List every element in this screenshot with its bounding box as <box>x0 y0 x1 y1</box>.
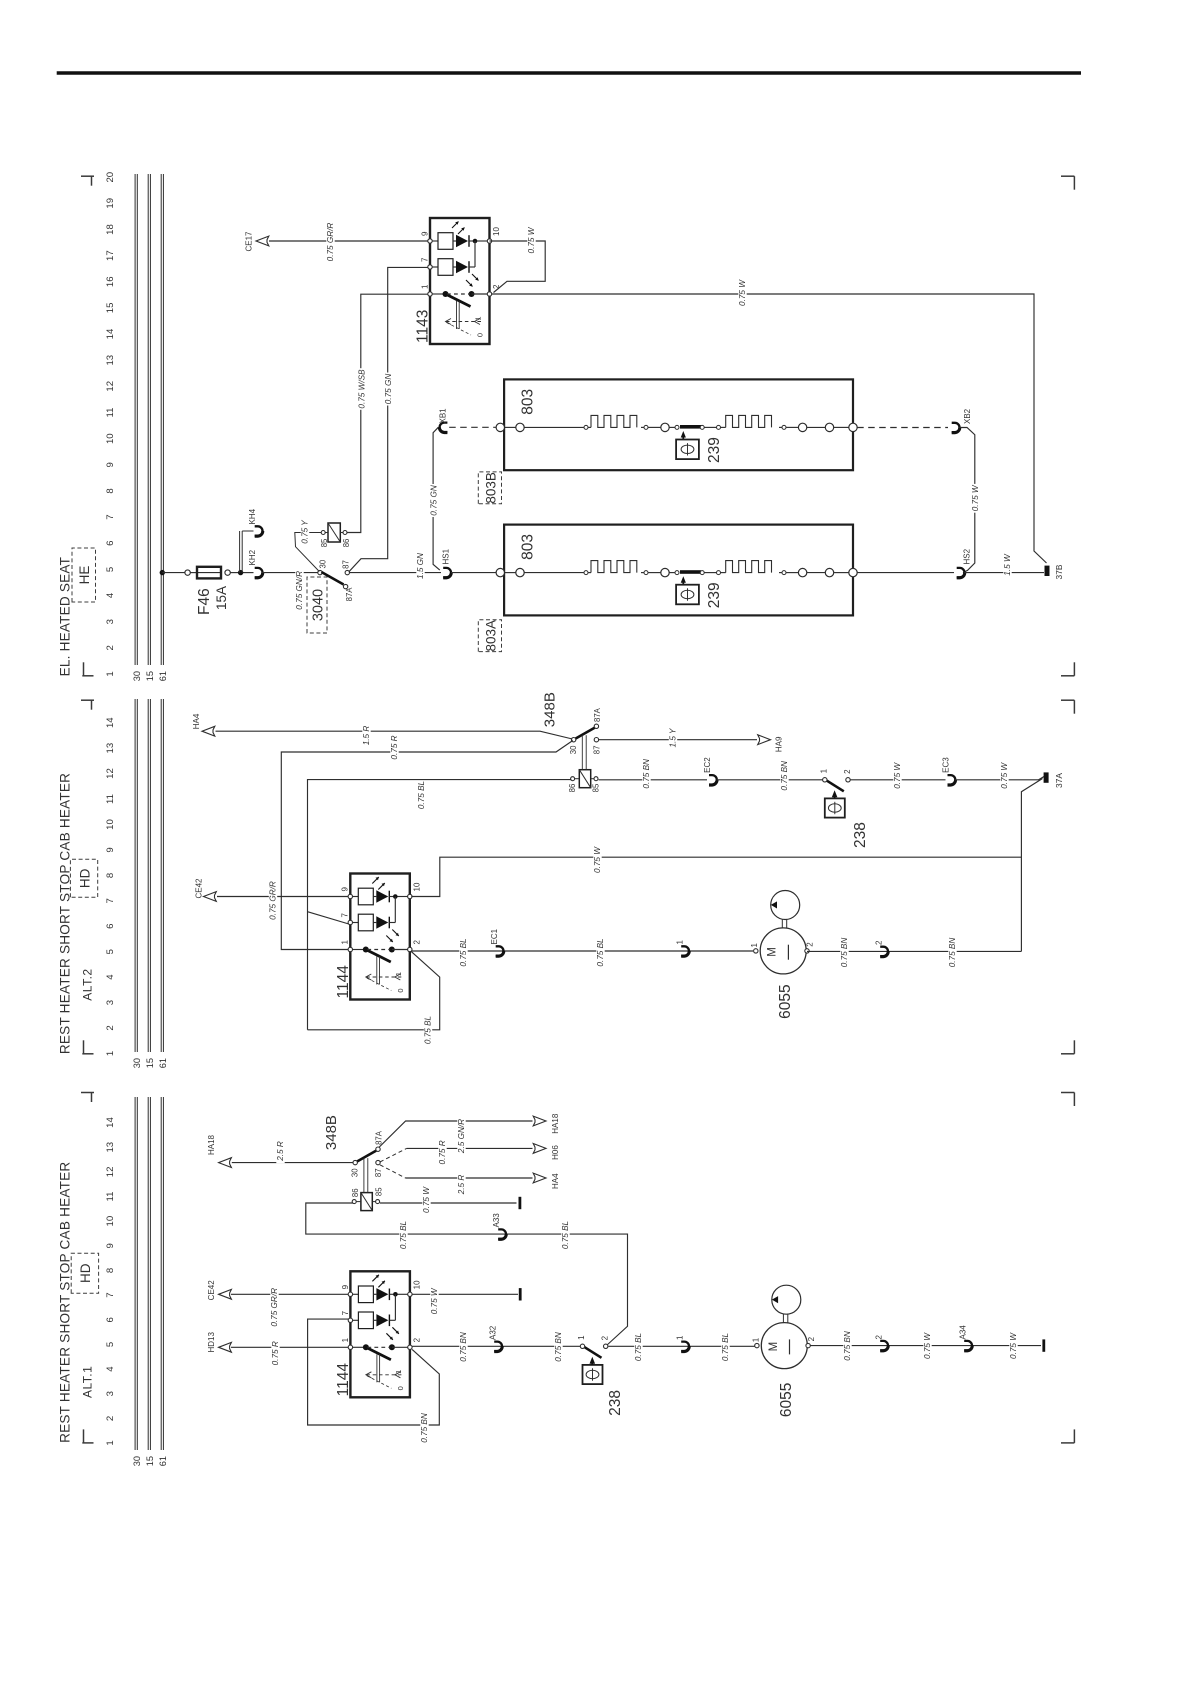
relay 3040 coil <box>320 523 351 547</box>
svg-text:13: 13 <box>105 355 116 366</box>
svg-text:0: 0 <box>396 1386 405 1390</box>
svg-text:1: 1 <box>751 1337 760 1342</box>
thermostat 238 (ALT.1) <box>577 1335 624 1416</box>
ALT.2 corner marks <box>81 700 1074 1054</box>
svg-text:348B: 348B <box>323 1115 340 1150</box>
svg-text:5: 5 <box>105 567 116 572</box>
svg-text:0.75 R: 0.75 R <box>438 1140 447 1164</box>
ALT.2 grid column numbers <box>105 717 116 1056</box>
connector HS1 <box>442 548 452 578</box>
connector arrow HA4 (ALT.2) <box>192 713 215 736</box>
svg-text:4: 4 <box>105 1366 116 1372</box>
svg-text:1: 1 <box>750 943 759 948</box>
svg-text:12: 12 <box>105 768 116 779</box>
HE rail labels <box>132 671 168 681</box>
svg-text:1: 1 <box>105 1440 116 1445</box>
svg-text:HA18: HA18 <box>207 1134 216 1155</box>
svg-text:14: 14 <box>105 328 116 339</box>
svg-text:2: 2 <box>105 1025 116 1030</box>
svg-text:87: 87 <box>342 560 351 569</box>
connector XB1 <box>439 408 448 433</box>
svg-text:1.5 R: 1.5 R <box>362 726 371 746</box>
svg-text:0.75 BN: 0.75 BN <box>948 938 957 968</box>
svg-text:CE42: CE42 <box>207 1280 216 1301</box>
wire 2.5 R 87 to HA4 (ALT.1) <box>380 1165 533 1197</box>
svg-text:KH2: KH2 <box>248 549 257 565</box>
svg-text:30: 30 <box>132 671 142 681</box>
svg-text:2: 2 <box>412 1337 421 1342</box>
wire 0.75 BN EC2 to 238 (ALT.2) <box>717 759 823 792</box>
group box 803B <box>478 472 501 504</box>
svg-text:A32: A32 <box>489 1325 498 1340</box>
svg-text:7: 7 <box>105 898 116 903</box>
svg-text:1: 1 <box>105 1051 116 1056</box>
svg-text:2: 2 <box>601 1335 610 1340</box>
svg-text:0.75 W: 0.75 W <box>422 1186 431 1213</box>
svg-text:9: 9 <box>341 1284 350 1289</box>
svg-text:0: 0 <box>476 333 485 337</box>
group box 3040 <box>307 577 327 633</box>
svg-text:1144: 1144 <box>335 1363 352 1397</box>
svg-text:3: 3 <box>105 619 116 624</box>
svg-text:19: 19 <box>105 198 116 209</box>
connector XB2 <box>952 408 972 432</box>
svg-text:239: 239 <box>706 437 723 463</box>
HE corner marks <box>81 176 1074 676</box>
wire 0.75 W EC3 to ground 37A (ALT.2) <box>955 761 1044 790</box>
wire HS1 to 803A <box>451 572 496 574</box>
svg-text:1: 1 <box>341 1337 350 1342</box>
svg-text:CE42: CE42 <box>195 878 204 899</box>
heater element unit 803B <box>496 379 857 470</box>
svg-text:61: 61 <box>158 1456 168 1466</box>
relay 3040 blade <box>321 572 343 585</box>
svg-text:30: 30 <box>319 559 328 568</box>
svg-text:1143: 1143 <box>415 310 432 343</box>
ALT.1 function group box HD <box>71 1253 98 1293</box>
svg-text:HA9: HA9 <box>775 736 784 752</box>
wire 0.75 GN pin7 to relay 87 <box>349 267 428 572</box>
connector arrow HD13 (ALT.1) <box>207 1332 231 1353</box>
svg-text:0.75 BL: 0.75 BL <box>399 1221 408 1249</box>
svg-text:1.5 GN: 1.5 GN <box>416 553 425 579</box>
svg-text:15: 15 <box>105 303 116 314</box>
svg-text:4: 4 <box>105 974 116 980</box>
ALT.2 function group box HD <box>70 859 97 897</box>
svg-text:61: 61 <box>158 671 168 681</box>
ALT.1 section title <box>58 1162 73 1443</box>
wire 1.5 W HS2 to ground <box>964 553 1044 578</box>
svg-text:2: 2 <box>412 940 421 945</box>
connector arrow H06 (ALT.1) <box>533 1144 560 1160</box>
svg-text:0.75 BL: 0.75 BL <box>459 938 468 966</box>
switch 1143 <box>415 218 502 344</box>
wire 0.75 BN pin2 to A32 (ALT.1) <box>412 1331 580 1364</box>
connector arrow HA18 right (ALT.1) <box>533 1113 560 1134</box>
svg-text:EC1: EC1 <box>490 928 499 944</box>
svg-text:0.75 W: 0.75 W <box>1000 762 1009 789</box>
svg-text:7: 7 <box>420 257 429 262</box>
svg-text:15: 15 <box>145 1058 155 1068</box>
svg-text:10: 10 <box>105 819 116 830</box>
svg-text:1: 1 <box>420 284 429 289</box>
svg-text:7: 7 <box>341 913 350 918</box>
svg-text:0.75 BN: 0.75 BN <box>840 938 849 968</box>
svg-text:0.75 BL: 0.75 BL <box>721 1333 730 1361</box>
svg-text:13: 13 <box>105 743 116 754</box>
svg-text:HD: HD <box>78 1263 93 1283</box>
relay 3040 pin 87A <box>343 584 354 601</box>
connector A34 (ALT.1) <box>959 1325 973 1351</box>
connector pin1 inline (ALT.2) <box>676 940 690 957</box>
svg-text:10: 10 <box>412 1280 421 1289</box>
svg-text:HD13: HD13 <box>207 1332 216 1353</box>
svg-text:5: 5 <box>105 1342 116 1347</box>
svg-text:2: 2 <box>843 769 852 774</box>
svg-text:8: 8 <box>105 1268 116 1273</box>
HE grid column numbers <box>105 172 116 677</box>
wire 0.75 W pin2 to ground 37B <box>492 279 1047 563</box>
wire 803A to HS2 <box>857 572 954 574</box>
wire 0.75 W pin10 to pin2 jumper <box>490 226 546 292</box>
svg-text:1: 1 <box>105 671 116 676</box>
connector KH4 <box>248 508 263 536</box>
svg-text:2: 2 <box>492 284 501 289</box>
svg-text:5: 5 <box>105 949 116 954</box>
switch 1144 (ALT.2) <box>335 874 422 1000</box>
svg-text:7: 7 <box>105 514 116 519</box>
svg-text:0.75 GN/R: 0.75 GN/R <box>295 571 304 610</box>
svg-text:0.75 GR/R: 0.75 GR/R <box>270 1288 279 1327</box>
wire 0.75 GR/R pin9 to CE17 <box>269 221 428 263</box>
svg-text:0.75 R: 0.75 R <box>271 1341 280 1365</box>
svg-text:ALT.2: ALT.2 <box>81 968 95 1000</box>
svg-text:1: 1 <box>394 1370 403 1374</box>
connector arrow HA9 (ALT.2) <box>758 735 784 752</box>
ALT.1 power rails <box>135 1097 163 1450</box>
svg-text:15: 15 <box>145 1456 155 1466</box>
wire 0.75 BN coil85 to EC2 (ALT.2) <box>599 757 707 790</box>
wire 0.75 BL coil86 to A33 line (ALT.1) <box>306 1203 628 1346</box>
svg-text:2: 2 <box>807 1336 816 1341</box>
svg-text:2: 2 <box>875 940 884 945</box>
svg-text:1144: 1144 <box>335 965 352 999</box>
svg-text:86: 86 <box>568 784 577 793</box>
connector arrow HA18 left (ALT.1) <box>207 1134 231 1167</box>
svg-text:A33: A33 <box>492 1213 501 1228</box>
svg-text:0.75 W: 0.75 W <box>893 762 902 789</box>
connector arrow CE17 <box>245 231 269 252</box>
svg-text:HA18: HA18 <box>551 1113 560 1134</box>
svg-text:0.75 R: 0.75 R <box>390 735 399 759</box>
ALT.1 corner marks <box>81 1093 1074 1443</box>
svg-text:9: 9 <box>105 462 116 467</box>
svg-text:6: 6 <box>105 1317 116 1322</box>
svg-text:6: 6 <box>105 541 116 546</box>
svg-text:18: 18 <box>105 224 116 235</box>
svg-text:30: 30 <box>569 745 578 754</box>
ALT.2 subtitle ALT.2 <box>81 968 95 1000</box>
svg-text:4: 4 <box>105 592 116 598</box>
wire 1.5 GN relay to HS1 <box>350 552 442 581</box>
svg-text:2.5 R: 2.5 R <box>276 1141 285 1162</box>
svg-text:30: 30 <box>351 1168 360 1177</box>
svg-text:10: 10 <box>412 882 421 891</box>
svg-text:7: 7 <box>105 1292 116 1297</box>
heater element unit 803A <box>496 525 857 616</box>
svg-text:15: 15 <box>145 671 155 681</box>
ground bar pin10 (ALT.1) <box>519 1288 522 1300</box>
svg-text:0.75 BN: 0.75 BN <box>780 761 789 791</box>
relay 3040 pin 30 <box>318 559 328 575</box>
wire 0.75 W coil85 to ground (ALT.1) <box>380 1186 517 1215</box>
svg-text:8: 8 <box>105 873 116 878</box>
svg-text:239: 239 <box>706 582 723 608</box>
svg-text:0.75 BN: 0.75 BN <box>554 1332 563 1362</box>
svg-text:0.75 GN: 0.75 GN <box>429 485 438 516</box>
wire 0.75 BN pin2 net loop (ALT.1) <box>308 1319 440 1444</box>
svg-text:85: 85 <box>375 1187 384 1196</box>
svg-text:0.75 Y: 0.75 Y <box>301 520 310 544</box>
svg-text:8: 8 <box>105 488 116 493</box>
wire motor pin2 to ground (ALT.1) <box>810 1330 1041 1363</box>
svg-text:0.75 BN: 0.75 BN <box>642 759 651 789</box>
svg-text:10: 10 <box>105 433 116 444</box>
svg-text:1: 1 <box>676 1335 685 1340</box>
svg-text:2: 2 <box>105 645 116 650</box>
svg-text:30: 30 <box>132 1456 142 1466</box>
wire motor return to ground 37A (ALT.2) <box>1021 779 1042 952</box>
HE fuse F46 terminals <box>185 570 230 575</box>
ALT.2 section title <box>58 773 73 1054</box>
ALT.1 grid column numbers <box>105 1117 116 1446</box>
svg-text:HA4: HA4 <box>551 1173 560 1189</box>
svg-text:XB1: XB1 <box>439 408 448 424</box>
svg-text:86: 86 <box>342 539 351 548</box>
connector 1 inline (ALT.1) <box>676 1335 690 1352</box>
svg-text:6055: 6055 <box>778 1383 795 1417</box>
ground 37A (ALT.2) <box>1044 772 1064 788</box>
ALT.1 subtitle ALT.1 <box>81 1366 95 1398</box>
svg-text:12: 12 <box>105 1167 116 1178</box>
svg-text:EC2: EC2 <box>703 757 712 773</box>
HE wire fuse to KH2 <box>230 572 253 574</box>
svg-text:HA4: HA4 <box>192 713 201 729</box>
svg-text:803: 803 <box>520 389 537 415</box>
svg-text:HD: HD <box>77 868 92 888</box>
svg-text:M: M <box>768 1342 780 1352</box>
svg-text:30: 30 <box>132 1058 142 1068</box>
connector 2 inline (ALT.1) <box>875 1335 889 1351</box>
wire 0.75 R 87 to H06 (ALT.1) <box>380 1138 533 1167</box>
wire 0.75 GN/R to relay 3040 <box>262 569 318 611</box>
svg-text:14: 14 <box>105 1117 116 1128</box>
svg-text:803A: 803A <box>484 620 499 652</box>
wire branch to KH4 (double) <box>240 531 254 573</box>
svg-text:0.75 W: 0.75 W <box>923 1332 932 1359</box>
connector 2 inline (ALT.2) <box>875 940 889 957</box>
svg-text:87A: 87A <box>345 587 354 602</box>
svg-text:1: 1 <box>474 316 483 320</box>
wire 0.75 Y coil85 to pin30 <box>295 518 321 572</box>
HE wire rail61 to fuse <box>162 572 197 574</box>
wire 0.75 BL 238 to motor (ALT.1) <box>608 1331 755 1364</box>
wire 0.75 GR/R pin9 to CE42 (ALT.2) <box>217 880 348 922</box>
svg-text:87: 87 <box>593 746 602 755</box>
dashed wire 803B to XB2 <box>857 427 948 429</box>
svg-text:1: 1 <box>819 768 828 773</box>
svg-text:9: 9 <box>420 231 429 236</box>
wire 0.75 W XB2 to HS2 <box>959 428 980 573</box>
svg-text:1.5 Y: 1.5 Y <box>669 728 678 748</box>
svg-text:86: 86 <box>351 1188 360 1197</box>
HE branch dot <box>238 570 243 575</box>
group box 803A <box>478 620 501 652</box>
svg-text:6: 6 <box>105 924 116 929</box>
svg-text:HS2: HS2 <box>963 548 972 564</box>
svg-text:15A: 15A <box>214 586 229 610</box>
wire 2.5 R HA18 to relay 30 (ALT.1) <box>232 1139 353 1164</box>
svg-text:6055: 6055 <box>777 984 794 1018</box>
svg-text:0.75 W: 0.75 W <box>527 226 536 253</box>
svg-text:0.75 BL: 0.75 BL <box>424 1016 433 1044</box>
svg-text:37B: 37B <box>1054 564 1064 579</box>
wire 0.75 GR/R pin9 to CE42 (ALT.1) <box>231 1287 348 1329</box>
svg-text:2.5 R: 2.5 R <box>457 1175 466 1196</box>
svg-text:0.75 BN: 0.75 BN <box>420 1413 429 1443</box>
svg-text:2: 2 <box>806 942 815 947</box>
svg-text:2.5 GN/R: 2.5 GN/R <box>457 1119 466 1154</box>
svg-text:3040: 3040 <box>311 589 327 621</box>
svg-text:16: 16 <box>105 276 116 287</box>
svg-text:9: 9 <box>105 1243 116 1248</box>
svg-text:85: 85 <box>320 538 329 547</box>
svg-text:87A: 87A <box>374 1130 383 1145</box>
connector EC3 (ALT.2) <box>942 757 956 785</box>
svg-text:0.75 BL: 0.75 BL <box>596 938 605 966</box>
connector EC1 (ALT.2) <box>490 928 504 956</box>
svg-text:0.75 GR/R: 0.75 GR/R <box>269 881 278 920</box>
wire 0.75 W pin10 to ground line (ALT.2) <box>411 846 1021 897</box>
svg-text:20: 20 <box>105 172 116 183</box>
svg-text:10: 10 <box>492 227 501 236</box>
svg-text:87A: 87A <box>593 707 602 722</box>
svg-text:REST HEATER SHORT STOP CAB HEA: REST HEATER SHORT STOP CAB HEATER <box>58 1162 73 1443</box>
svg-text:348B: 348B <box>542 692 559 727</box>
svg-text:0.75 W: 0.75 W <box>593 846 602 873</box>
svg-text:M: M <box>767 947 779 957</box>
svg-text:14: 14 <box>105 717 116 728</box>
svg-text:0.75 BL: 0.75 BL <box>634 1333 643 1361</box>
svg-text:0.75 W: 0.75 W <box>1009 1332 1018 1359</box>
fuse F46 <box>196 567 229 615</box>
svg-text:37A: 37A <box>1054 773 1064 788</box>
connector A32 (ALT.1) <box>489 1325 503 1351</box>
connector arrow CE42 (ALT.1) <box>207 1280 231 1301</box>
page top rule (thick border line) <box>57 71 1081 75</box>
svg-text:238: 238 <box>852 822 869 848</box>
wire 0.75 R pin1 to relay 30 (ALT.2) <box>281 733 573 949</box>
svg-text:EC3: EC3 <box>942 757 951 773</box>
svg-text:3: 3 <box>105 1000 116 1005</box>
HE section title <box>58 557 73 677</box>
ALT.2 power rails <box>135 699 163 1052</box>
svg-text:CE17: CE17 <box>245 231 254 252</box>
connector arrow HA4 (ALT.1) <box>533 1173 560 1189</box>
wire 0.75 W/SB pin1 to coil 86 <box>347 294 428 532</box>
svg-text:HE: HE <box>77 566 92 585</box>
relay 348B (ALT.2) <box>542 692 602 792</box>
svg-text:17: 17 <box>105 250 116 261</box>
ALT.2 rail labels <box>132 1058 168 1068</box>
svg-text:HS1: HS1 <box>442 548 451 564</box>
wire 0.75 BL pin2 to motor (ALT.2) <box>411 936 753 969</box>
svg-text:2: 2 <box>875 1335 884 1340</box>
svg-text:13: 13 <box>105 1142 116 1153</box>
svg-text:XB2: XB2 <box>963 408 972 424</box>
wire 0.75 W pin10 to ground (ALT.1) <box>412 1287 518 1316</box>
svg-text:85: 85 <box>591 783 600 792</box>
svg-text:H06: H06 <box>551 1145 560 1160</box>
svg-text:3: 3 <box>105 1391 116 1396</box>
motor 6055 (ALT.2) <box>750 891 815 1019</box>
svg-text:87: 87 <box>374 1168 383 1177</box>
wire 0.75 BL net coil86/pin7/pin2 (ALT.2) <box>308 780 572 1047</box>
wire 1.5 R HA4 to relay 30 (ALT.2) <box>216 723 573 748</box>
svg-text:EL. HEATED SEAT: EL. HEATED SEAT <box>58 557 73 677</box>
svg-text:12: 12 <box>105 381 116 392</box>
svg-text:11: 11 <box>105 1192 116 1202</box>
svg-text:11: 11 <box>105 794 116 804</box>
svg-text:0.75 BN: 0.75 BN <box>843 1331 852 1361</box>
svg-text:11: 11 <box>105 408 116 418</box>
connector HS2 <box>957 548 972 578</box>
switch 1144 (ALT.1) <box>335 1271 422 1397</box>
motor 6055 (ALT.1) <box>751 1285 816 1417</box>
HE function group box HE <box>72 548 96 602</box>
svg-text:803B: 803B <box>484 472 499 504</box>
wire 0.75 W 238 to EC3 (ALT.2) <box>851 761 946 790</box>
wire 0.75 BN motor pin2 down (ALT.2) <box>807 936 1021 969</box>
svg-text:0.75 W: 0.75 W <box>971 484 980 511</box>
wire 0.75 R HD13 to pin1 (ALT.1) <box>231 1339 348 1368</box>
connector arrow CE42 (ALT.2) <box>195 878 217 901</box>
svg-text:0.75 GR/R: 0.75 GR/R <box>326 223 335 262</box>
connector A33 (ALT.1) <box>492 1213 506 1240</box>
svg-text:0.75 BL: 0.75 BL <box>561 1221 570 1249</box>
wire 1.5 Y relay87 to HA9 (ALT.2) <box>599 726 757 751</box>
svg-text:KH4: KH4 <box>248 508 257 524</box>
relay 3040 pin 87 <box>342 560 351 575</box>
wire 0.75 GN HS1 to XB1 <box>429 427 439 570</box>
svg-text:9: 9 <box>105 847 116 852</box>
svg-text:0.75 W: 0.75 W <box>738 279 747 306</box>
ALT.1 rail labels <box>132 1456 168 1466</box>
svg-text:0.75 W: 0.75 W <box>430 1287 439 1314</box>
svg-text:0.75 BL: 0.75 BL <box>417 781 426 809</box>
svg-text:1: 1 <box>577 1335 586 1340</box>
svg-text:1: 1 <box>341 940 350 945</box>
dashed wire XB1 to heater 803B <box>449 426 496 428</box>
ground bar coil (ALT.1) <box>519 1197 522 1209</box>
HE power rails <box>135 174 163 665</box>
thermostat 238 (ALT.2) <box>819 768 869 848</box>
svg-text:10: 10 <box>105 1216 116 1227</box>
svg-text:1.5 W: 1.5 W <box>1003 553 1012 576</box>
ground bar motor (ALT.1) <box>1042 1339 1045 1351</box>
svg-text:238: 238 <box>607 1390 624 1416</box>
svg-text:REST HEATER SHORT STOP CAB HEA: REST HEATER SHORT STOP CAB HEATER <box>58 773 73 1054</box>
